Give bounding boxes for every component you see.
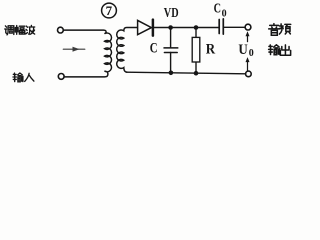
char 音 bbox=[269, 24, 280, 36]
coupling capacitor C0 plates bbox=[219, 19, 223, 34]
char 入 bbox=[25, 73, 34, 81]
label 输入 (input), hand-drawn CJK strokes bbox=[13, 73, 34, 82]
svg-text:7: 7 bbox=[106, 3, 113, 18]
char 波 bbox=[26, 25, 35, 34]
circled number 7 bbox=[102, 3, 117, 18]
svg-text:C: C bbox=[214, 2, 221, 17]
voltage arrow U0 upper segment bbox=[247, 36, 249, 42]
output terminal top-right bbox=[245, 24, 251, 30]
label 调幅波 (AM wave), hand-drawn CJK strokes bbox=[5, 25, 35, 35]
signal arrow (between input terminals) bbox=[63, 47, 85, 51]
voltage arrow U0 lower segment bbox=[247, 61, 249, 70]
char 输 bbox=[269, 45, 280, 55]
node: junction dot at R bottom bbox=[194, 71, 199, 76]
svg-text:0: 0 bbox=[249, 48, 254, 59]
input terminal top-left bbox=[58, 27, 64, 33]
node: junction dot at R top bbox=[194, 25, 199, 30]
capacitor C (filter cap) stubs bbox=[170, 28, 172, 73]
char 幅 bbox=[15, 26, 25, 35]
resistor R body bbox=[192, 37, 200, 62]
input terminal bottom-left bbox=[58, 74, 64, 80]
transformer secondary winding L2 (right coil) + wire to diode bbox=[117, 28, 138, 73]
svg-text:VD: VD bbox=[164, 6, 179, 21]
char 调 bbox=[5, 26, 14, 35]
top wire: diode to C0 bbox=[154, 27, 219, 29]
node: junction dot at C top bbox=[168, 25, 173, 30]
diode VD triangle (anode) bbox=[138, 20, 152, 34]
diode VD cathode bar bbox=[152, 20, 155, 36]
bottom wire (secondary to output) bbox=[126, 72, 245, 74]
svg-text:0: 0 bbox=[222, 9, 227, 20]
capacitor C plates bbox=[164, 48, 178, 53]
wire C0 to output terminal bbox=[224, 26, 245, 28]
char 出 bbox=[280, 45, 290, 55]
wire + transformer primary winding L1 (left coil) bbox=[63, 30, 111, 77]
char 频 bbox=[279, 24, 290, 34]
label 音频 (audio), hand-drawn CJK strokes bbox=[269, 24, 291, 36]
char 输 bbox=[13, 73, 23, 82]
resistor R stubs bbox=[195, 28, 197, 74]
svg-text:C: C bbox=[150, 41, 158, 57]
svg-text:R: R bbox=[206, 41, 216, 57]
svg-text:U: U bbox=[238, 42, 248, 58]
node: junction dot at C bottom bbox=[169, 71, 174, 76]
label 输出 (output), hand-drawn CJK strokes bbox=[269, 45, 291, 55]
output terminal bottom-right bbox=[246, 71, 252, 77]
